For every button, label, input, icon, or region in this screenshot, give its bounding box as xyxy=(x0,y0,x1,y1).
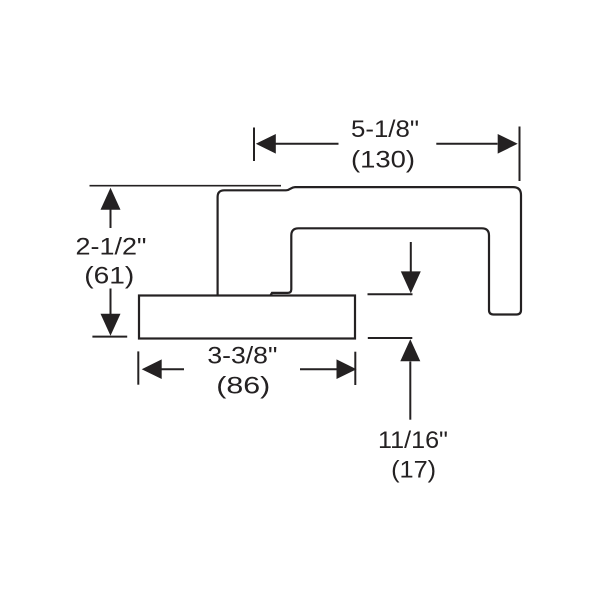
svg-text:(61): (61) xyxy=(84,263,134,290)
svg-text:(130): (130) xyxy=(351,147,415,174)
svg-text:2-1/2": 2-1/2" xyxy=(76,233,147,260)
svg-text:(86): (86) xyxy=(216,372,270,399)
svg-text:3-3/8": 3-3/8" xyxy=(207,342,277,369)
svg-text:11/16": 11/16" xyxy=(378,427,448,454)
svg-text:(17): (17) xyxy=(391,456,436,483)
svg-text:5-1/8": 5-1/8" xyxy=(351,116,419,143)
